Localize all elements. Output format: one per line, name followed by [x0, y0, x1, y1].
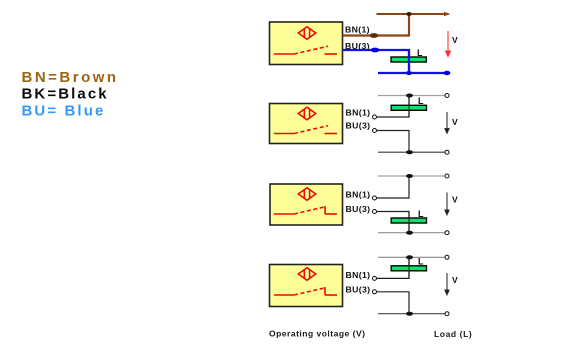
wire through load L4: [408, 257, 410, 278]
wire BU S4: [377, 292, 409, 314]
terminal circle top rail S2: [445, 94, 449, 98]
junction top rail S3: [406, 174, 413, 178]
svg-text:L: L: [418, 96, 424, 106]
wire BU S2: [377, 131, 409, 153]
sensor box S1: [270, 22, 343, 65]
svg-text:BN(1): BN(1): [345, 25, 370, 35]
wire BU S3: [377, 212, 409, 233]
svg-text:L: L: [418, 209, 424, 219]
NO switch contact S2: [274, 126, 337, 134]
wire through load L1: [408, 50, 410, 73]
proximity-sensor symbol S1: [298, 27, 315, 40]
svg-text:Operating voltage (V): Operating voltage (V): [269, 329, 365, 339]
proximity-sensor symbol S4: [298, 268, 315, 281]
wire BN brown S1: [343, 14, 410, 36]
load L4: [391, 266, 426, 271]
junction bottom rail S2: [406, 150, 413, 154]
svg-text:L: L: [417, 48, 423, 58]
svg-text:V: V: [452, 195, 458, 205]
voltage arrow V2: [445, 112, 449, 133]
terminal circle BN S3: [373, 196, 377, 200]
terminal circle top rail S3: [445, 174, 449, 178]
junction on BU wire S1: [371, 48, 379, 53]
wire BU blue S1: [343, 50, 410, 73]
supply rail - (blue) S1: [378, 72, 449, 74]
svg-text:BK=Black: BK=Black: [22, 86, 109, 103]
terminal circle bottom rail S3: [445, 231, 449, 235]
svg-text:L: L: [418, 256, 424, 266]
wire through load L3: [408, 212, 410, 233]
load L3: [391, 218, 426, 223]
svg-text:BU(3): BU(3): [346, 285, 371, 295]
junction on BN wire S1: [370, 33, 378, 38]
junction bottom rail S3: [406, 231, 413, 235]
junction top rail S2: [406, 94, 413, 98]
junction top rail S4: [406, 255, 413, 259]
terminal circle BU S2: [373, 129, 377, 133]
terminal circle bottom rail S4: [445, 312, 449, 316]
wire BN S4: [377, 257, 409, 278]
terminal circle BN S2: [373, 115, 377, 119]
supply rail + S4: [378, 256, 445, 258]
terminal circle BN S4: [373, 276, 377, 280]
terminal circle top rail S4: [445, 255, 449, 259]
svg-text:BU= Blue: BU= Blue: [22, 103, 106, 120]
load L1: [391, 57, 426, 62]
svg-text:BN(1): BN(1): [346, 108, 371, 118]
load L2: [391, 105, 426, 110]
end dot blue rail S1: [444, 71, 451, 75]
svg-text:BN=Brown: BN=Brown: [22, 69, 119, 86]
sensor box S3: [270, 184, 343, 225]
supply rail - S4: [378, 313, 445, 315]
svg-text:BU(3): BU(3): [346, 121, 371, 131]
arrow end of brown rail S1: [444, 12, 451, 17]
terminal circle BU S3: [373, 210, 377, 214]
voltage arrow V4: [445, 273, 449, 295]
junction blue rail S1: [406, 71, 412, 75]
svg-text:BN(1): BN(1): [346, 270, 371, 280]
junction on brown rail S1: [406, 12, 411, 16]
supply rail + S3: [378, 175, 445, 177]
sensor box S2: [270, 104, 343, 144]
svg-text:BU(3): BU(3): [346, 204, 371, 214]
svg-text:Load (L): Load (L): [434, 329, 472, 339]
wire BN S2: [377, 96, 409, 118]
supply rail + (brown) S1: [377, 13, 447, 15]
proximity-sensor symbol S3: [298, 188, 315, 201]
supply rail - S3: [378, 232, 445, 234]
terminal circle bottom rail S2: [445, 150, 449, 154]
junction bottom rail S4: [406, 312, 413, 316]
terminal circle BU S4: [373, 290, 377, 294]
wire BN S3: [377, 176, 409, 198]
sensor box S4: [270, 265, 343, 307]
voltage arrow V3: [445, 193, 449, 215]
voltage arrow V1: [446, 31, 451, 57]
NC switch contact S3: [274, 206, 337, 214]
NC switch contact S4: [274, 287, 337, 295]
svg-text:BN(1): BN(1): [346, 190, 371, 200]
proximity-sensor symbol S2: [298, 107, 315, 120]
supply rail + S2: [378, 95, 445, 97]
NO switch contact S1: [274, 46, 337, 54]
svg-text:V: V: [452, 35, 458, 45]
svg-text:V: V: [452, 117, 458, 127]
svg-text:V: V: [452, 275, 458, 285]
supply rail - S2: [378, 151, 445, 153]
wire through load L2: [408, 96, 410, 118]
